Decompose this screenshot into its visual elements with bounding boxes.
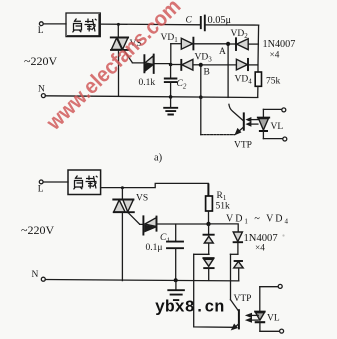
junction dot triac (bottom): [121, 186, 124, 189]
collector vertical: [230, 254, 232, 299]
triac gate wire (top): [124, 50, 144, 63]
svg-text:0.1k: 0.1k: [139, 78, 156, 88]
diode VD1: [181, 38, 226, 50]
svg-text:0.1μ: 0.1μ: [146, 243, 163, 253]
light arrows (top opto): [246, 118, 258, 127]
hand-drawn 负: [74, 176, 83, 190]
wire load to R1 corner (with jog): [101, 183, 209, 187]
svg-text:1N4007: 1N4007: [244, 233, 278, 244]
diac / trigger diode (bottom gate): [143, 216, 208, 234]
LED VL (bottom): [255, 287, 266, 332]
svg-text:L: L: [38, 26, 44, 36]
emitter loop wire: [194, 254, 233, 327]
diode VD4: [236, 59, 258, 70]
wire L to load (bottom): [43, 181, 68, 183]
control terminals (top opto): [263, 108, 286, 141]
right column lower diode: [234, 261, 244, 281]
terminal N (top): [38, 85, 45, 98]
diac / trigger diode (top gate): [144, 55, 170, 73]
terminal L (top circuit): [38, 22, 44, 36]
node A vertical wire down: [227, 46, 229, 97]
svg-text:0.05μ: 0.05μ: [208, 15, 232, 26]
svg-text:75k: 75k: [266, 77, 281, 87]
N rail (bottom): [45, 280, 239, 281]
scan speck: [282, 234, 284, 236]
resistor 75k: [255, 72, 261, 97]
diode VD2: [230, 38, 258, 50]
node A: [226, 42, 230, 46]
svg-text:×4: ×4: [255, 244, 265, 254]
capacitor C2: [165, 65, 177, 97]
svg-text:A: A: [219, 47, 226, 57]
triac gate wire (bottom): [128, 212, 143, 224]
junction dot C1/N: [174, 278, 178, 282]
wire B to VD4: [203, 64, 236, 66]
junction dot triac top: [117, 23, 120, 26]
bridge left vertical wire: [170, 44, 172, 65]
svg-text:C2: C2: [177, 79, 187, 91]
diode VD3: [181, 59, 199, 70]
right vertical wire (top cap corner down): [257, 25, 260, 72]
svg-text:VTP: VTP: [234, 141, 252, 151]
junction dot R1/bridge: [206, 222, 210, 226]
LED VL (top): [258, 109, 269, 138]
junction dot C2/ground: [169, 95, 173, 99]
svg-text:~220V: ~220V: [21, 223, 54, 237]
svg-text:VTP: VTP: [234, 294, 252, 304]
svg-text:VD4: VD4: [235, 75, 253, 86]
load box 负载 (bottom): [68, 170, 101, 195]
svg-text:N: N: [32, 270, 39, 280]
triac VS (top): [111, 24, 129, 96]
svg-text:ybx8.cn: ybx8.cn: [155, 298, 224, 317]
svg-text:×4: ×4: [270, 51, 280, 61]
svg-text:~220V: ~220V: [24, 54, 57, 68]
phototransistor VTP (top): [229, 104, 244, 134]
control terminals (bottom opto): [260, 284, 284, 333]
svg-text:C: C: [186, 16, 193, 26]
capacitor C1: [167, 224, 183, 280]
node junction (gate/C2/bridge-left): [169, 63, 173, 67]
light arrows (bottom opto): [246, 313, 258, 322]
wire load to C cap, with triac junction: [100, 23, 200, 26]
terminal N (bottom): [32, 270, 46, 281]
svg-text:VD1: VD1: [161, 33, 179, 44]
svg-text:VS: VS: [136, 194, 148, 204]
hand-drawn 载: [85, 19, 97, 32]
N rail (top circuit): [45, 96, 257, 98]
wire C to right corner: [205, 24, 259, 26]
hand-drawn 载: [86, 176, 98, 189]
svg-text:N: N: [38, 85, 45, 95]
svg-text:VL: VL: [267, 314, 280, 324]
svg-text:a): a): [154, 153, 163, 164]
svg-text:51k: 51k: [216, 202, 231, 212]
mid-right wire to collector: [230, 253, 238, 255]
svg-text:VD3: VD3: [195, 53, 213, 64]
right column upper diode: [233, 232, 242, 254]
left column lower diode: [203, 258, 213, 280]
svg-text:VD2: VD2: [231, 29, 249, 40]
mid-left junction wire to loop: [194, 253, 209, 255]
bridge top rail to right column: [211, 224, 239, 232]
ground (bottom): [168, 280, 184, 300]
bridge top rail left segment: [171, 43, 181, 45]
triac VS (bottom): [113, 188, 134, 281]
hand-drawn 负: [73, 19, 82, 33]
R1 resistor: [206, 183, 213, 222]
bridge (bottom): left column upper diode: [204, 224, 214, 254]
svg-text:R1: R1: [217, 191, 227, 202]
svg-text:VL: VL: [271, 122, 284, 132]
svg-text:www.elecfans.com: www.elecfans.com: [41, 0, 185, 135]
wire L to load: [43, 23, 66, 25]
svg-text:1N4007: 1N4007: [263, 39, 296, 50]
phototransistor VTP (bottom): [231, 300, 239, 330]
svg-text:B: B: [204, 68, 210, 78]
bridge lower rail: junction to VD3: [171, 64, 181, 66]
node B: [199, 63, 203, 67]
capacitor C (0.05u) plates: [201, 16, 205, 31]
terminal L (bottom): [38, 180, 44, 195]
node B vertical wire down: [200, 67, 202, 97]
svg-text:L: L: [38, 185, 44, 195]
load box 负载 (top): [66, 13, 100, 37]
emitter wire (dotted scan): [201, 134, 235, 136]
ground (top circuit): [164, 97, 177, 115]
